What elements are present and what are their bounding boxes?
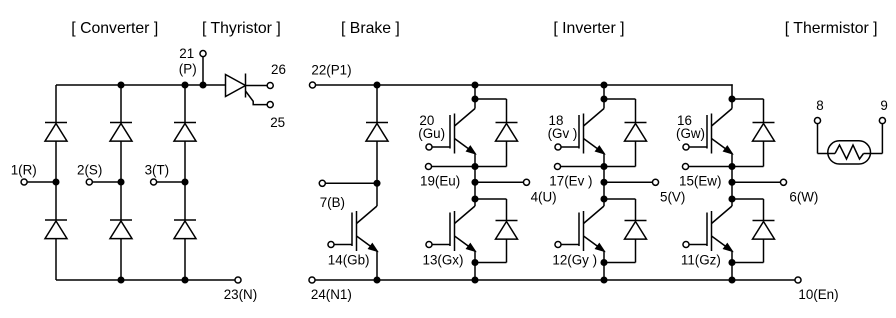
diode D1 (converter upper arm leg 1) (45, 123, 67, 142)
wire converter leg 2 upper segment (120, 85, 122, 123)
terminal 1(R) pin 1 (21, 179, 27, 185)
transistor Q7 (brake IGBT) (328, 206, 377, 251)
wire brake leg top segment (376, 85, 378, 123)
svg-text:15(Ew): 15(Ew) (679, 173, 721, 188)
svg-text:11(Gz): 11(Gz) (681, 252, 721, 267)
terminal 17(Ev ) emitter sense (554, 163, 560, 169)
svg-text:[ Thermistor ]: [ Thermistor ] (785, 20, 878, 37)
diode DF5 (phase V lower freewheel) (604, 199, 647, 263)
junction phase W lower diode return (729, 260, 735, 266)
junction converter bottom rail leg2 (118, 277, 124, 283)
junction phase W emitter node (729, 164, 735, 170)
transistor Q1 (phase U upper IGBT) (426, 109, 475, 154)
diode DF3 (phase W upper freewheel) (753, 99, 775, 167)
junction input 2(S) node (118, 179, 124, 185)
terminal 10(En) pin 10 (795, 277, 801, 283)
junction phase W output node (729, 180, 735, 186)
terminal 7(B) pin 7 (319, 180, 325, 186)
junction input 3(T) node (182, 179, 188, 185)
svg-text:22(P1): 22(P1) (311, 63, 351, 78)
junction phase V lower diode branch (601, 196, 607, 202)
diode DF1 (phase U upper freewheel) (496, 99, 518, 167)
diode DF4 (phase U lower freewheel) (475, 199, 518, 263)
junction phase V on N1 rail (601, 277, 607, 283)
wire input 2(S) to leg (92, 181, 121, 183)
terminal 9 pin 9 (879, 118, 885, 124)
transistor Q2 (phase V upper IGBT) (555, 109, 604, 154)
wire terminal 7(B) to node B (325, 182, 377, 184)
wire converter leg 1 upper segment (55, 85, 57, 123)
svg-text:14(Gb): 14(Gb) (328, 252, 370, 267)
svg-text:25: 25 (270, 115, 285, 130)
wire phase U collector segment (474, 84, 476, 108)
wire input 1(R) to leg (27, 181, 56, 183)
junction node P on top rail (200, 82, 206, 88)
junction phase U emitter node (472, 164, 478, 170)
wire brake emitter to N1 rail (376, 251, 378, 280)
wire converter leg 3 middle segment (184, 141, 186, 220)
transistor Q6 (phase W lower IGBT) (683, 206, 732, 251)
diode DF2 (phase V upper freewheel) (625, 99, 647, 167)
svg-text:10(En): 10(En) (798, 287, 838, 302)
svg-text:2(S): 2(S) (77, 162, 102, 177)
wire brake leg to node B (376, 141, 378, 206)
svg-text:3(T): 3(T) (145, 162, 170, 177)
wire N rail (converter bottom bus) (56, 279, 235, 281)
wire phase W upper diode branch (732, 98, 764, 100)
terminal 23(N) pin 23 (235, 277, 241, 283)
svg-text:(P): (P) (179, 61, 197, 76)
junction phase W on N1 rail (729, 277, 735, 283)
wire emitter sense V (561, 166, 636, 168)
wire phase W collector segment (731, 84, 733, 108)
wire N1 rail (bottom bus) (315, 279, 796, 281)
svg-text:5(V): 5(V) (660, 190, 685, 205)
diode D2 (converter upper arm leg 2) (110, 123, 132, 142)
wire converter leg 1 middle segment (55, 141, 57, 220)
transistor Q3 (phase W upper IGBT) (683, 109, 732, 154)
svg-text:1(R): 1(R) (11, 162, 37, 177)
wire phase V midpoint segment (603, 154, 605, 207)
terminal 22(P1) pin 22 (309, 82, 315, 88)
wire phase W output (732, 181, 781, 183)
terminal 26 (thyristor cathode) (267, 82, 273, 88)
wire phase U upper diode branch (475, 98, 507, 100)
wire phase U output (475, 181, 524, 183)
junction converter top rail leg3 (182, 82, 188, 88)
wire pin 21 to P rail (202, 57, 204, 85)
diode D7 (brake) (366, 123, 388, 142)
junction converter top rail leg2 (118, 82, 124, 88)
junction phase U on N1 rail (472, 277, 478, 283)
wire converter leg 3 upper segment (184, 85, 186, 123)
svg-text:8: 8 (816, 98, 823, 113)
wire pin 9 lead (864, 123, 883, 153)
junction phase V upper diode branch (601, 96, 607, 102)
transistor Q4 (phase U lower IGBT) (426, 206, 475, 251)
svg-text:[ Inverter ]: [ Inverter ] (553, 20, 624, 37)
junction brake leg on P1 rail (374, 82, 380, 88)
wire converter leg 1 lower segment (55, 239, 57, 280)
svg-text:26: 26 (271, 62, 286, 77)
svg-text:[ Converter ]: [ Converter ] (71, 20, 158, 37)
wire phase U emitter to N1 rail (474, 251, 476, 280)
terminal 24(N1) pin 24 (309, 277, 315, 283)
diode D6 (converter lower arm leg 3) (174, 220, 196, 239)
svg-text:(Gu): (Gu) (418, 126, 445, 141)
wire converter leg 3 lower segment (184, 239, 186, 280)
terminal 19(Eu) emitter sense (425, 163, 431, 169)
svg-text:17(Ev ): 17(Ev ) (549, 173, 592, 188)
wire phase V collector segment (603, 84, 605, 108)
svg-text:(Gv ): (Gv ) (548, 126, 578, 141)
svg-text:4(U): 4(U) (531, 190, 557, 205)
junction phase V output node (601, 180, 607, 186)
thyristor TH1 (226, 74, 268, 105)
terminal 4(U) output (523, 179, 529, 185)
wire phase V upper diode branch (604, 98, 636, 100)
junction phase U output node (472, 180, 478, 186)
junction phase U upper diode branch (472, 96, 478, 102)
svg-text:9: 9 (880, 98, 887, 113)
svg-text:12(Gy ): 12(Gy ) (552, 252, 597, 267)
junction converter bottom rail leg3 (182, 277, 188, 283)
svg-text:19(Eu): 19(Eu) (420, 173, 460, 188)
junction phase U lower diode return (472, 260, 478, 266)
junction brake emitter on N1 rail (374, 277, 380, 283)
wire phase U midpoint segment (474, 154, 476, 207)
wire phase U lower diode branch (475, 198, 507, 200)
wire P1 rail (top bus) (315, 84, 733, 86)
svg-text:7(B): 7(B) (320, 195, 345, 210)
wire emitter sense U (432, 166, 507, 168)
junction phase U lower diode branch (472, 196, 478, 202)
svg-text:(Gw): (Gw) (676, 126, 705, 141)
wire phase V output (604, 181, 653, 183)
terminal 8 pin 8 (814, 118, 820, 124)
junction phase V leg on P1 rail (601, 82, 607, 88)
wire pin 8 lead (818, 123, 836, 153)
wire P rail (converter top bus) (56, 84, 226, 86)
transistor Q5 (phase V lower IGBT) (555, 206, 604, 251)
svg-text:21: 21 (179, 46, 194, 61)
junction phase V lower diode return (601, 260, 607, 266)
wire phase W lower diode branch (732, 198, 764, 200)
junction phase W lower diode branch (729, 196, 735, 202)
wire phase W emitter to N1 rail (731, 251, 733, 280)
terminal 6(W) output (780, 179, 786, 185)
wire input 3(T) to leg (157, 181, 185, 183)
svg-text:6(W): 6(W) (789, 190, 818, 205)
svg-text:24(N1): 24(N1) (311, 287, 352, 302)
thermistor RT1 (828, 141, 871, 164)
terminal 2(S) pin 2 (86, 179, 92, 185)
svg-text:[ Brake ]: [ Brake ] (341, 20, 400, 37)
wire phase W midpoint segment (731, 154, 733, 207)
diode D3 (converter upper arm leg 3) (174, 123, 196, 142)
diode D5 (converter lower arm leg 2) (110, 220, 132, 239)
wire emitter sense W (689, 166, 764, 168)
junction node B (374, 181, 380, 187)
wire converter leg 2 middle segment (120, 141, 122, 220)
terminal 3(T) pin 3 (151, 179, 157, 185)
terminal 25 (thyristor gate) (267, 102, 273, 108)
junction input 1(R) node (53, 179, 59, 185)
junction phase V emitter node (601, 164, 607, 170)
svg-text:23(N): 23(N) (224, 287, 257, 302)
terminal 15(Ew) emitter sense (682, 163, 688, 169)
terminal 21(P) pin 21 (200, 51, 206, 57)
diode DF6 (phase W lower freewheel) (732, 199, 775, 263)
diode D4 (converter lower arm leg 1) (45, 220, 67, 239)
wire phase V lower diode branch (604, 198, 636, 200)
wire converter leg 2 lower segment (120, 239, 122, 280)
junction phase U leg on P1 rail (472, 82, 478, 88)
wire phase V emitter to N1 rail (603, 251, 605, 280)
junction phase W upper diode branch (729, 96, 735, 102)
svg-text:[ Thyristor ]: [ Thyristor ] (202, 20, 281, 37)
svg-text:13(Gx): 13(Gx) (423, 252, 464, 267)
terminal 5(V) output (652, 179, 658, 185)
